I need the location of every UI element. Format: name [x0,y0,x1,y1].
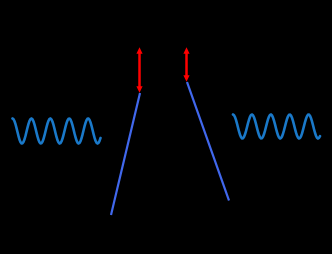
beam line left [111,93,140,215]
red double arrow left [136,47,142,93]
photon wave right (scattered light) [233,115,320,139]
beam line right [187,82,229,201]
photon wave left (incident light) [13,119,101,144]
red double arrow right [183,47,189,82]
